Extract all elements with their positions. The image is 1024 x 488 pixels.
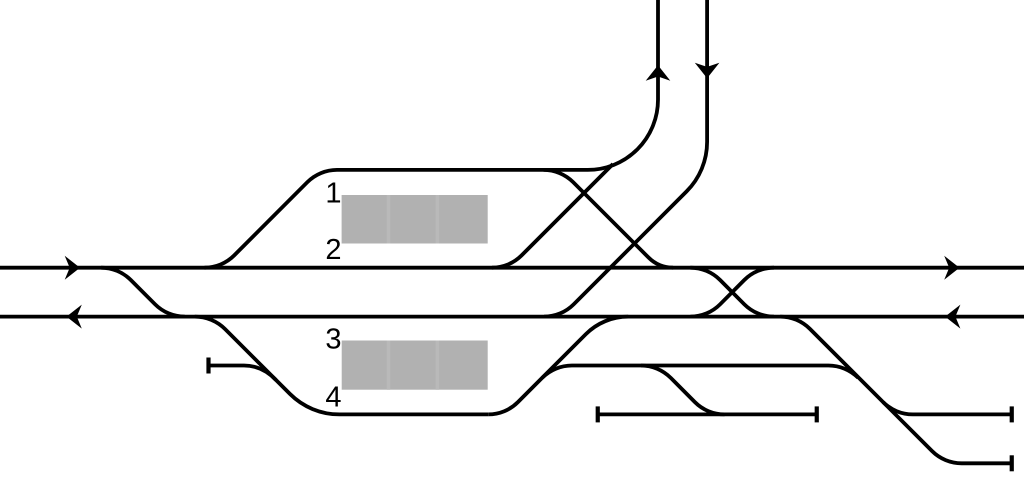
descent from lower main to track 4 [195, 317, 488, 415]
track 4 right climb up to lower main [488, 317, 628, 415]
arrow right on upper main, right end [944, 256, 959, 280]
main line track 2 (upper main, full width) [0, 266, 1024, 270]
platform 2 seam lines [389, 341, 438, 390]
arrow left on lower main, right end [945, 305, 960, 329]
branch from lower main down to right stubs [780, 317, 1012, 464]
long siding left buffer stop [596, 406, 600, 422]
platform 1 (between track 1 and track 2) [342, 195, 488, 244]
connector from aux down to long siding [641, 366, 725, 415]
arrow up on branch V1 [646, 65, 671, 81]
main line track 3 (lower main, full width) [0, 315, 1024, 319]
aux siding track peeling from climb, running right [542, 366, 858, 378]
left crossover main1 to main2 [101, 268, 185, 317]
right stub upper buffer stop [1010, 406, 1014, 422]
scissors crossover S2 main2 to main1 [690, 268, 774, 317]
diagonal C: from track 1 down to upper main [544, 170, 674, 268]
svg-text:4: 4 [325, 381, 341, 413]
long siding with buffer stops both ends [598, 412, 817, 416]
arrow right on upper main, left end [65, 256, 80, 280]
arrow down on branch V2 [695, 63, 720, 78]
arrow left on lower main, left end [67, 305, 82, 329]
platform 2 (between track 3 and track 4) [342, 341, 488, 390]
scissors crossover S1 main1 to main2 [690, 268, 774, 317]
svg-text:2: 2 [325, 234, 341, 266]
track 1 loop with left turnout from main and right curve up to branch V1 [205, 0, 659, 268]
diagonal A: from upper main up to branch V1 [492, 164, 613, 268]
right stub lower buffer stop [1010, 455, 1014, 471]
left stub buffer stop [206, 358, 210, 374]
svg-text:1: 1 [325, 177, 341, 209]
left dead-end stub joining descent [209, 366, 277, 381]
platform 1 seam lines [389, 195, 438, 244]
svg-text:3: 3 [325, 324, 341, 356]
branch V2 (incoming vertical) with diagonal B down to lower main [544, 0, 707, 317]
right stub upper track [883, 402, 1012, 414]
long siding right buffer stop [815, 406, 819, 422]
